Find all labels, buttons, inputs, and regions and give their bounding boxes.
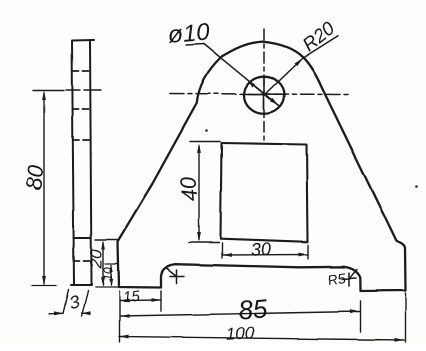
- side view hidden line (hole top edge): [73, 70, 91, 72]
- svg-text:R20: R20: [299, 18, 340, 56]
- hole circle o10: [244, 77, 284, 114]
- side view hidden line (slot top): [74, 260, 92, 262]
- svg-text:20: 20: [86, 249, 105, 269]
- side view hidden line (hole bottom edge): [73, 108, 91, 110]
- dimension 100: [119, 337, 404, 341]
- dimension 15: [120, 291, 161, 311]
- left extension line: [119, 291, 121, 342]
- svg-text:100: 100: [225, 323, 255, 343]
- svg-text:85: 85: [237, 293, 269, 325]
- fillet center mark right: [342, 270, 357, 287]
- svg-text:80: 80: [21, 163, 48, 190]
- svg-text:ø10: ø10: [167, 19, 211, 49]
- svg-text:15: 15: [122, 288, 141, 306]
- dimension 30: [222, 243, 308, 259]
- fillet center mark left: [167, 269, 185, 284]
- dimension 85: [120, 312, 360, 317]
- side view step line: [74, 237, 92, 239]
- svg-text:30: 30: [250, 239, 271, 260]
- leader o10: [186, 44, 279, 106]
- vertical center line: [263, 29, 265, 143]
- stray dot 1: [205, 129, 208, 132]
- dimension 10: [95, 264, 119, 288]
- side view outline: [71, 40, 94, 286]
- side view center line: [33, 89, 101, 92]
- front view outline: [118, 42, 406, 291]
- side view hidden line (square hole top): [73, 139, 91, 141]
- square hole: [221, 143, 308, 242]
- dimension 40: [189, 142, 220, 243]
- dimension 3: [49, 290, 90, 316]
- horizontal center line: [170, 94, 351, 95]
- svg-text:40: 40: [175, 175, 202, 202]
- svg-text:10: 10: [101, 267, 115, 281]
- right extension line (85): [360, 301, 362, 332]
- dimension 80: [32, 93, 56, 286]
- right extension line (100): [405, 293, 407, 342]
- leader R20: [264, 36, 338, 95]
- stray dot 2: [415, 185, 418, 188]
- dimension 20: [96, 240, 118, 286]
- svg-text:3: 3: [67, 291, 82, 313]
